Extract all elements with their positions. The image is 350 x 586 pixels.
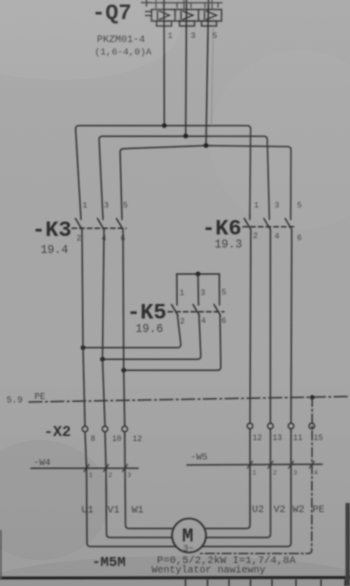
- wire U1 below X2: [85, 432, 177, 547]
- terminal X2:15: [309, 423, 315, 429]
- K6 linkage (dashed): [243, 226, 294, 228]
- node: junction on V1 wire: [100, 357, 105, 362]
- node: junction L1: [162, 123, 167, 128]
- wire: K5.4 to V1 node: [103, 316, 201, 360]
- contactor K5 contacts: [172, 305, 221, 316]
- wire W2 below X2: [202, 429, 292, 547]
- terminal X2:8: [82, 426, 88, 432]
- wire U2: K6.2 down to X2: [249, 230, 252, 424]
- wire W1 below X2: [125, 432, 174, 529]
- K5 linkage (dashed): [168, 311, 224, 313]
- frame column ticks: [186, 580, 346, 586]
- wire V2 below X2: [206, 429, 271, 538]
- wire: tee line 3 (L3 to K3.5 and K6.5): [120, 146, 291, 220]
- contactor K6 (3 poles): [244, 219, 291, 230]
- terminal X2:12: [122, 426, 128, 432]
- wire PE drop (dash-dot): [199, 397, 312, 553]
- node: PE tap junction: [310, 395, 315, 400]
- terminal X2:12 right: [247, 423, 253, 429]
- scan mottling: [0, 0, 180, 80]
- wire L2 from Q7 pole 3: [185, 0, 188, 136]
- frame left edge artifact: [0, 530, 2, 580]
- wire U2 below X2: [205, 429, 250, 529]
- contactor K3 (3 poles): [76, 219, 124, 230]
- node: junction on W1 wire: [121, 368, 126, 373]
- wire V2: K6.4 down to X2: [269, 230, 271, 424]
- node: junction L2: [183, 134, 188, 139]
- wire ghost artifact next to L3: [212, 14, 214, 125]
- node: junction on U1 wire: [81, 345, 86, 350]
- terminal X2:10: [102, 426, 108, 432]
- frame right border: [346, 503, 350, 586]
- wire L1 from Q7 pole 1: [163, 0, 165, 126]
- node: K5 bridge junction: [196, 272, 201, 277]
- wire V1: K3.4 down to X2:10: [103, 230, 106, 427]
- circuit breaker Q7 (motor protective breaker, partially cut at top): [142, 0, 223, 26]
- K5 pole stubs: [176, 274, 178, 305]
- wire V1 below X2: [105, 432, 172, 538]
- wire: tee line 2 (L2 to K3.3 and K6.3): [99, 136, 269, 219]
- PE bus (dash-dot): [29, 397, 350, 403]
- wire W2: K6.6 down to X2: [290, 230, 293, 424]
- node: junction L3: [204, 143, 209, 148]
- motor M5M: [172, 519, 206, 553]
- wire: tee line 1 (L1 to K3.1 and K6.1): [76, 126, 251, 220]
- terminal X2:13: [268, 423, 274, 429]
- K3 linkage (dashed): [72, 227, 126, 229]
- wire: K5.2 to U1 node: [83, 316, 181, 348]
- terminal X2:11: [288, 423, 294, 429]
- wire U1: K3.2 down to X2:8: [82, 230, 85, 427]
- drawing frame bottom border: [0, 576, 350, 580]
- contactor K5 star bridge: [177, 273, 220, 275]
- wire W1: K3.6 down to X2:12: [123, 230, 125, 427]
- wire: K5.6 to W1 node: [124, 316, 221, 371]
- wire L3 from Q7 pole 5: [206, 0, 209, 145]
